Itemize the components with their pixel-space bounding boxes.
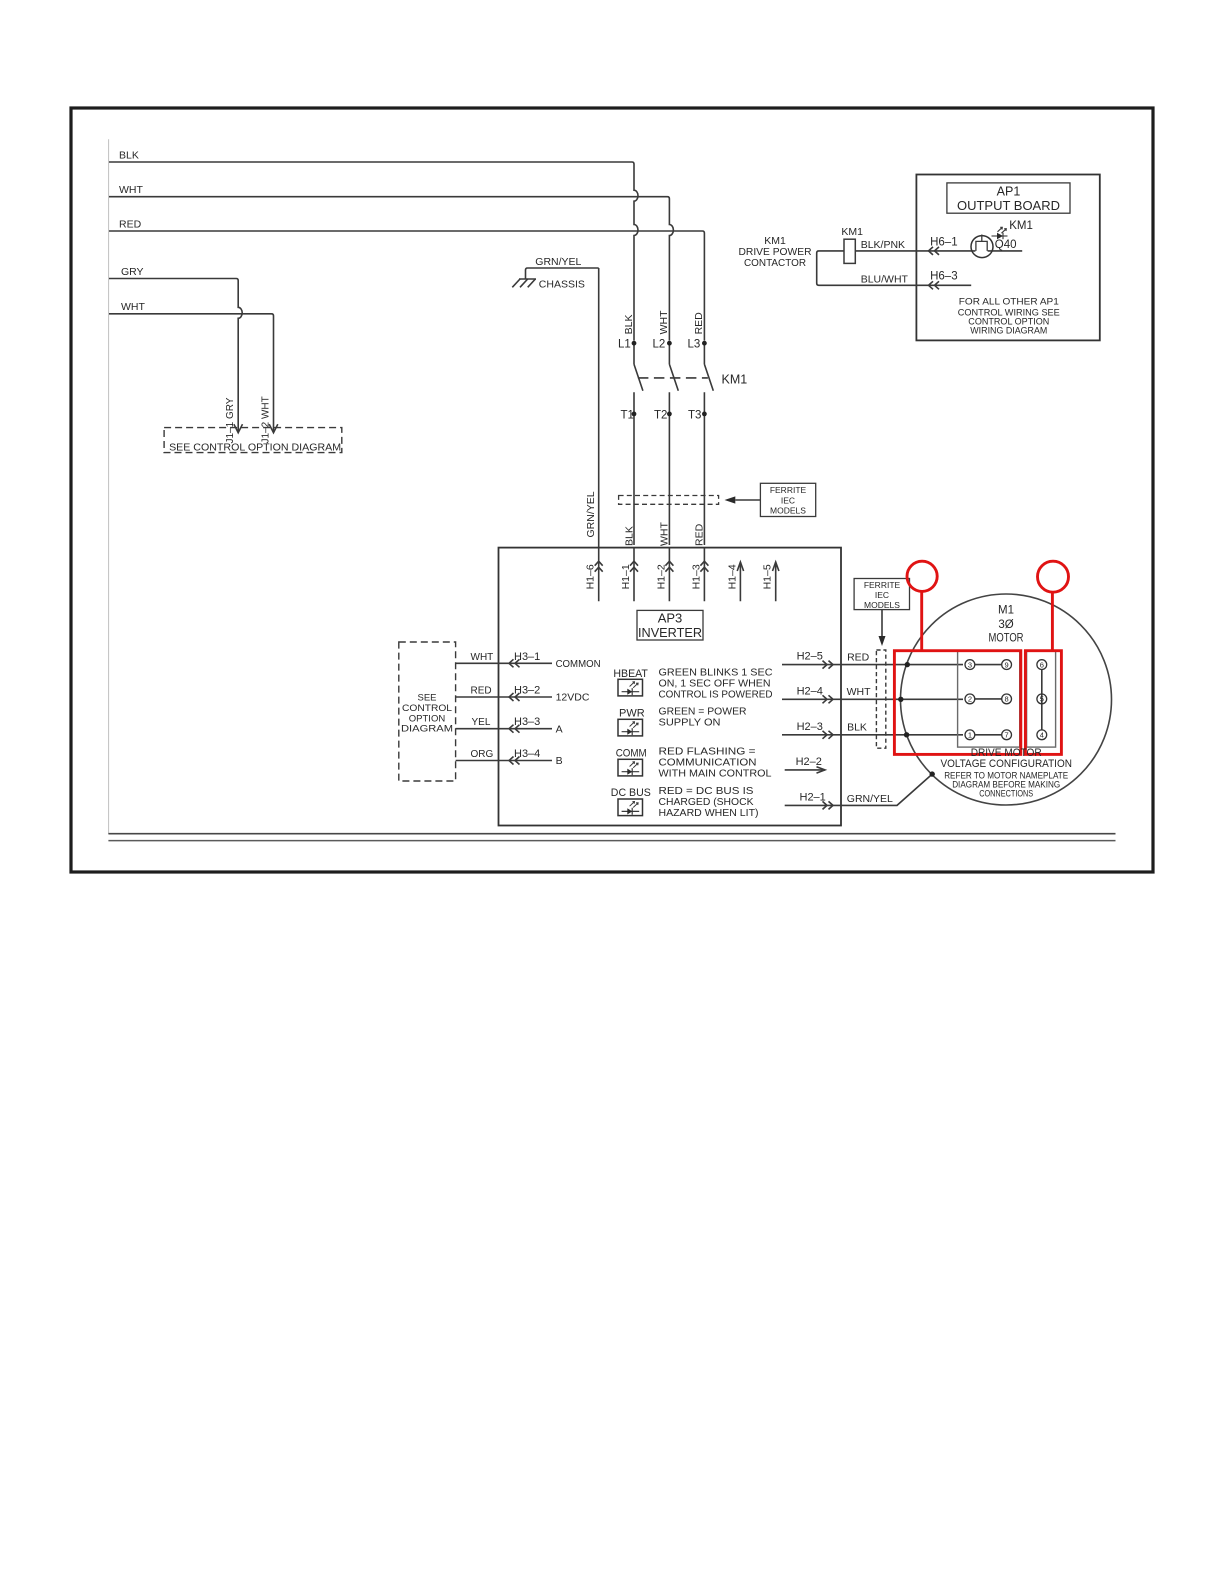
svg-text:WHT: WHT bbox=[121, 301, 145, 313]
svg-text:COMM: COMM bbox=[616, 747, 647, 759]
svg-text:ORG: ORG bbox=[471, 749, 494, 760]
svg-text:DC BUS: DC BUS bbox=[611, 787, 651, 799]
svg-text:Q40: Q40 bbox=[995, 239, 1017, 251]
svg-text:RED: RED bbox=[471, 686, 492, 697]
svg-text:B: B bbox=[556, 755, 563, 767]
svg-text:H2–4: H2–4 bbox=[797, 685, 823, 697]
svg-text:CONNECTIONS: CONNECTIONS bbox=[979, 788, 1033, 798]
svg-text:FOR ALL OTHER AP1: FOR ALL OTHER AP1 bbox=[959, 297, 1059, 308]
svg-text:H1–5: H1–5 bbox=[762, 564, 774, 589]
svg-text:L1: L1 bbox=[618, 339, 631, 351]
svg-text:WHT: WHT bbox=[847, 686, 871, 698]
svg-text:T2: T2 bbox=[654, 409, 667, 421]
svg-text:GRN/YEL: GRN/YEL bbox=[847, 793, 893, 805]
svg-text:FERRITE: FERRITE bbox=[864, 580, 901, 590]
svg-text:H1–3: H1–3 bbox=[690, 564, 702, 589]
svg-text:GRN/YEL: GRN/YEL bbox=[585, 491, 597, 537]
svg-text:M1: M1 bbox=[998, 605, 1014, 617]
svg-text:BLK: BLK bbox=[119, 149, 139, 161]
svg-text:H1–1: H1–1 bbox=[620, 564, 632, 589]
svg-text:A: A bbox=[556, 723, 563, 735]
svg-text:MOTOR: MOTOR bbox=[989, 633, 1024, 645]
svg-text:6: 6 bbox=[1040, 660, 1044, 669]
svg-text:BLK/PNK: BLK/PNK bbox=[861, 239, 905, 251]
svg-text:SUPPLY ON: SUPPLY ON bbox=[659, 716, 721, 728]
svg-text:BLK: BLK bbox=[847, 722, 867, 734]
svg-text:KM1: KM1 bbox=[841, 226, 863, 238]
svg-text:IEC: IEC bbox=[875, 590, 889, 600]
svg-text:FERRITE: FERRITE bbox=[770, 485, 807, 495]
svg-text:GRY: GRY bbox=[121, 266, 144, 278]
svg-text:MODELS: MODELS bbox=[770, 506, 806, 516]
svg-text:1: 1 bbox=[968, 731, 972, 740]
svg-text:KM1: KM1 bbox=[1009, 220, 1033, 232]
svg-text:WHT: WHT bbox=[119, 184, 143, 196]
svg-text:CHASSIS: CHASSIS bbox=[539, 279, 585, 291]
svg-text:HAZARD WHEN LIT): HAZARD WHEN LIT) bbox=[659, 807, 759, 819]
svg-text:MODELS: MODELS bbox=[864, 600, 900, 610]
svg-text:HBEAT: HBEAT bbox=[613, 668, 648, 680]
svg-text:COMMON: COMMON bbox=[556, 658, 601, 670]
svg-text:12VDC: 12VDC bbox=[556, 692, 590, 704]
svg-text:KM1: KM1 bbox=[722, 372, 748, 386]
svg-text:WHT: WHT bbox=[471, 652, 494, 663]
svg-text:H1–2: H1–2 bbox=[655, 564, 667, 589]
svg-text:WIRING DIAGRAM: WIRING DIAGRAM bbox=[970, 326, 1047, 337]
svg-text:CONTROL IS POWERED: CONTROL IS POWERED bbox=[659, 689, 773, 701]
svg-text:RED: RED bbox=[847, 651, 870, 663]
svg-text:RED: RED bbox=[694, 523, 706, 546]
svg-text:BLK: BLK bbox=[624, 526, 636, 546]
svg-text:BLK: BLK bbox=[623, 315, 635, 335]
svg-text:8: 8 bbox=[1005, 695, 1009, 704]
svg-text:H6–3: H6–3 bbox=[930, 271, 958, 283]
svg-text:2: 2 bbox=[968, 695, 972, 704]
svg-text:T1: T1 bbox=[621, 409, 634, 421]
svg-text:H2–3: H2–3 bbox=[797, 721, 823, 733]
svg-text:L2: L2 bbox=[653, 339, 666, 351]
svg-text:H1–4: H1–4 bbox=[726, 564, 738, 589]
svg-text:AP1: AP1 bbox=[997, 185, 1021, 199]
svg-text:H6–1: H6–1 bbox=[930, 236, 958, 248]
svg-text:WITH MAIN CONTROL: WITH MAIN CONTROL bbox=[659, 768, 772, 780]
svg-text:3: 3 bbox=[968, 660, 972, 669]
svg-text:T3: T3 bbox=[688, 409, 701, 421]
svg-text:4: 4 bbox=[1040, 731, 1044, 740]
svg-text:H2–5: H2–5 bbox=[797, 651, 823, 663]
svg-text:RED: RED bbox=[693, 312, 705, 335]
svg-text:DIAGRAM: DIAGRAM bbox=[401, 724, 453, 735]
svg-text:H2–2: H2–2 bbox=[796, 756, 822, 768]
svg-text:INVERTER: INVERTER bbox=[638, 625, 702, 640]
svg-text:L3: L3 bbox=[688, 339, 701, 351]
svg-text:H3–3: H3–3 bbox=[514, 716, 540, 728]
svg-text:9: 9 bbox=[1005, 660, 1009, 669]
svg-text:AP3: AP3 bbox=[658, 611, 683, 626]
svg-text:IEC: IEC bbox=[781, 495, 795, 505]
svg-text:J1–1 GRY: J1–1 GRY bbox=[225, 397, 236, 443]
svg-text:3Ø: 3Ø bbox=[998, 619, 1013, 631]
svg-text:GRN/YEL: GRN/YEL bbox=[535, 256, 581, 268]
svg-text:5: 5 bbox=[1040, 695, 1044, 704]
svg-text:H2–1: H2–1 bbox=[800, 792, 826, 804]
svg-text:CONTACTOR: CONTACTOR bbox=[744, 257, 806, 269]
svg-text:7: 7 bbox=[1005, 731, 1009, 740]
svg-text:PWR: PWR bbox=[619, 707, 645, 719]
svg-text:BLU/WHT: BLU/WHT bbox=[861, 274, 909, 286]
svg-text:H3–2: H3–2 bbox=[514, 685, 540, 697]
svg-text:YEL: YEL bbox=[472, 717, 491, 728]
svg-text:RED: RED bbox=[119, 218, 142, 230]
svg-text:WHT: WHT bbox=[658, 310, 670, 334]
svg-text:H3–4: H3–4 bbox=[514, 748, 540, 760]
svg-text:H1–6: H1–6 bbox=[585, 564, 597, 589]
svg-text:VOLTAGE CONFIGURATION: VOLTAGE CONFIGURATION bbox=[940, 758, 1072, 770]
svg-text:SEE CONTROL OPTION DIAGRAM: SEE CONTROL OPTION DIAGRAM bbox=[169, 442, 341, 454]
svg-text:WHT: WHT bbox=[659, 522, 671, 546]
svg-text:J1–2 WHT: J1–2 WHT bbox=[260, 396, 271, 443]
svg-text:H3–1: H3–1 bbox=[514, 651, 540, 663]
svg-text:OUTPUT BOARD: OUTPUT BOARD bbox=[957, 199, 1060, 213]
